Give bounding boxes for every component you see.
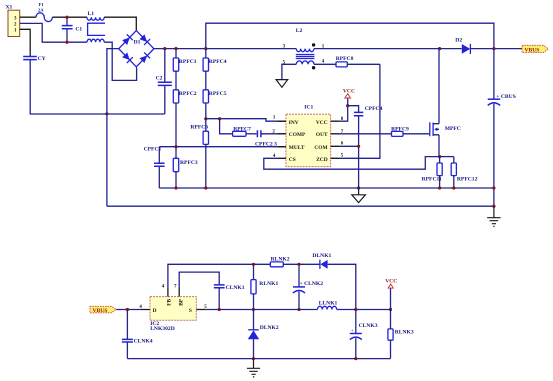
power VCC symbol bottom [385,279,397,310]
ground under IC1 [352,188,366,203]
node RPFC12 bottom [452,186,455,189]
wire FB line [168,264,270,288]
capacitor CY [23,56,165,114]
svg-text:VCC: VCC [385,279,397,285]
node C2 top [163,47,166,50]
wire bridge left vertex branch [107,49,119,114]
port VBUS top [522,45,548,53]
svg-text:D2: D2 [455,38,462,44]
connector X1 [6,5,20,37]
node C1 top [65,16,68,19]
wire MULT line [159,146,286,148]
svg-text:FB: FB [167,299,173,306]
resistor RPFC5 [203,90,227,119]
wire RPFC4 to RPFC5 [205,71,207,90]
node COM [357,145,360,148]
node DLNK2 bottom [252,357,255,360]
resistor RPFC8 [336,56,380,67]
node drain on rail [438,47,441,50]
top bus rail [206,23,494,48]
svg-text:C1: C1 [75,26,82,32]
capacitor CBUS [488,49,516,207]
node RLNK1 bottom [252,308,255,311]
svg-text:+ CLNK2: + CLNK2 [300,281,324,287]
wire L1 top to bridge top vertex [104,17,136,30]
wire pin3 of X1 to fuse [20,16,36,18]
ground near L2 [276,80,288,88]
wire D2 to VBUS [470,48,522,50]
svg-text:VCC: VCC [343,89,355,95]
resistor RPFC9 [391,127,429,137]
svg-text:IC1: IC1 [304,104,313,110]
wire INV line [206,119,286,122]
svg-text:CLNK1: CLNK1 [226,285,245,291]
resistor RPFC7 [233,126,257,136]
svg-text:D: D [153,308,157,314]
svg-text:MPFC: MPFC [445,126,461,132]
svg-text:S: S [189,308,192,314]
capacitor CLNK1 [214,285,245,310]
svg-text:RPFC1: RPFC1 [179,59,197,65]
wire upper ground bus [159,187,494,189]
transistor MPFC mosfet [430,122,461,136]
svg-text:RLNK3: RLNK3 [395,329,414,335]
node RLNK1 top [252,263,255,266]
capacitor C2 [156,49,172,114]
svg-text:RPFC9: RPFC9 [391,127,409,133]
wire drain up to rail [438,49,441,124]
svg-text:RPFC4: RPFC4 [209,59,227,65]
node VCC [346,104,349,107]
wire X1 pin1 to CY [20,29,31,56]
resistor RPFC1 [173,49,197,72]
wire L2 pin5 to ground [282,64,296,79]
wire VCC pin8 [339,106,348,122]
svg-text:VCC: VCC [316,120,328,126]
svg-text:+: + [351,328,354,333]
wire COM pin6 [339,145,359,147]
diode D2 [455,38,470,54]
wire OUT pin7 [339,133,392,135]
capacitor CLNK2 [293,264,323,309]
wire bottom ground bus [127,358,390,360]
svg-text:DLNK2: DLNK2 [260,325,279,331]
node source [438,155,441,158]
svg-text:BP: BP [178,298,184,306]
node RPFC3 bottom [174,186,177,189]
wire rail from L2 to D2 [314,48,462,50]
bridge rectifier D1 [119,31,154,67]
svg-text:L1: L1 [88,11,95,17]
svg-text:CLNK4: CLNK4 [134,338,153,344]
node CLNK4 top [126,308,129,311]
svg-text:VBUS: VBUS [93,308,108,314]
node bus right top [492,186,495,189]
svg-text:+ CBUS: + CBUS [496,94,516,100]
svg-text:INV: INV [289,120,299,126]
svg-text:LLNK1: LLNK1 [319,301,338,307]
IC op-amp U IC1 [272,104,343,166]
svg-text:RPFC8: RPFC8 [336,56,354,62]
capacitor CLNK4 [122,310,153,359]
capacitor CPFC1 [144,146,165,188]
node CLNK2 top [297,263,300,266]
svg-text:ZCD: ZCD [316,157,327,163]
svg-text:VBUS: VBUS [525,47,540,53]
resistor RLNK2 [270,257,320,267]
wire RPFC1 to RPFC2 [175,71,177,90]
node CLNK2 bottom [297,308,300,311]
node CLNK1 bottom [218,308,221,311]
wire minus node down to bottom bus [106,114,108,206]
wire L2 pin4 to RPFC8 [314,63,336,65]
capacitor CLNK3 [350,310,378,359]
wire ZCD to transformer [339,64,380,158]
svg-text:RPFC5: RPFC5 [209,91,227,97]
node VCC output [389,308,392,311]
diode DLNK2 [248,310,279,359]
svg-text:CY: CY [38,56,46,62]
wire fuse to L1 top [52,16,87,18]
svg-text:D1: D1 [134,39,141,45]
svg-text:LNK302D: LNK302D [150,326,175,332]
ground earth right [487,206,500,226]
svg-text:RLNK1: RLNK1 [259,281,278,287]
common-mode choke L1 [87,11,105,42]
wire source node [438,135,440,157]
node INV divider [204,117,207,120]
svg-text:RPFC12: RPFC12 [457,177,478,183]
svg-text:OUT: OUT [316,132,328,138]
node RPFC4 column top [204,47,207,50]
resistor RPFC3 [173,147,198,188]
wire pin2 of X1 down to lower AC line [20,23,87,42]
node COMP branch [218,117,221,120]
wire LLNK1 to VCC node [337,309,391,311]
svg-text:RPFC2: RPFC2 [179,91,197,97]
diode DLNK1 [312,253,355,310]
svg-text:2A: 2A [38,8,44,13]
node RPFC1 top [174,47,177,50]
node CPFC4 bottom on bus [357,186,360,189]
node C1 bottom [65,41,68,44]
svg-text:CLNK3: CLNK3 [359,323,378,329]
svg-text:CS: CS [289,157,296,163]
resistor RPFC12 [451,157,477,188]
node RPFC3 top [174,145,177,148]
node minus junction [105,112,108,115]
svg-text:RPFC7: RPFC7 [233,126,251,132]
capacitor C1 [62,17,83,42]
svg-text:RPFC11: RPFC11 [422,177,442,183]
resistor RPFC4 [203,49,227,72]
svg-text:RPFC6: RPFC6 [190,125,208,131]
inductor LLNK1 [318,301,338,310]
node RPFC6 bottom [204,186,207,189]
wire source to RPFC12 top [440,156,454,158]
transformer L2 [283,28,325,69]
wire L1 bottom to bridge bottom vertex [104,42,136,80]
wire COMP branch down [220,119,233,134]
resistor RPFC2 [173,90,197,147]
capacitor CPFC2 [255,130,286,147]
svg-text:COM: COM [314,145,327,151]
wire BP line [179,272,219,288]
wire S line [205,309,318,311]
svg-text:F1: F1 [39,2,45,7]
resistor RPFC11 [422,157,443,188]
svg-text:MULT: MULT [289,145,305,151]
svg-text:RPFC3: RPFC3 [180,160,198,166]
IC2 LNK302D [139,284,207,332]
resistor RPFC6 [190,119,208,188]
node D2 cathode rail [492,47,495,50]
wire CS sense line [264,157,440,170]
svg-text:COMP: COMP [289,132,306,138]
svg-text:DLNK1: DLNK1 [312,253,331,259]
node bus right bottom [492,205,495,208]
svg-text:RLNK2: RLNK2 [271,257,290,263]
wire VBUS to IC2 D pin [116,309,141,311]
resistor RLNK3 [388,310,414,359]
capacitor CPFC4 [348,106,383,188]
svg-text:C2: C2 [156,76,163,82]
power VCC symbol top [343,89,355,106]
node RPFC11 bottom [438,186,441,189]
node switch filter [354,308,357,311]
node CLNK3 bottom [354,357,357,360]
wire lower return bus [107,205,494,207]
wire rectified rail [154,48,296,50]
svg-text:X1: X1 [6,5,13,11]
resistor RLNK1 [251,264,279,309]
fuse F1 [36,2,52,22]
svg-text:L2: L2 [296,28,303,34]
ground earth bottom [247,359,260,377]
port VBUS bottom [90,306,116,314]
